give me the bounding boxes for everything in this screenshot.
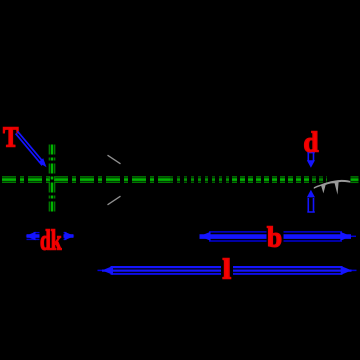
svg-text:b: b bbox=[267, 221, 282, 253]
chamfer line lower (gray) bbox=[108, 196, 121, 205]
dimension dk line (blue, with arrows) bbox=[27, 233, 74, 240]
chamfer line upper (gray) bbox=[108, 155, 121, 164]
dimension l line (blue, with arrows) bbox=[98, 267, 357, 274]
break squiggle at shaft end (gray) bbox=[314, 180, 351, 195]
l left arrowhead bbox=[102, 266, 113, 275]
wire vertical head centerline (green dash-dot) bbox=[49, 145, 54, 215]
svg-text:T: T bbox=[3, 122, 19, 154]
dimension d upper arrow (blue) bbox=[307, 152, 315, 161]
b right arrowhead bbox=[340, 232, 351, 241]
svg-text:d: d bbox=[304, 127, 319, 159]
b left arrowhead bbox=[200, 232, 211, 241]
svg-text:l: l bbox=[223, 254, 232, 285]
svg-text:dk: dk bbox=[40, 225, 62, 257]
dimension b line (blue, with arrows) bbox=[200, 232, 357, 241]
dimension d lower arrow (blue) bbox=[307, 198, 315, 213]
wire horizontal axis centerline (green dash-dot) bbox=[2, 177, 359, 182]
leader arrow for T (blue) bbox=[16, 131, 45, 165]
dk right arrowhead bbox=[65, 232, 75, 241]
dk left arrowhead bbox=[26, 232, 36, 241]
l right arrowhead bbox=[341, 266, 352, 275]
